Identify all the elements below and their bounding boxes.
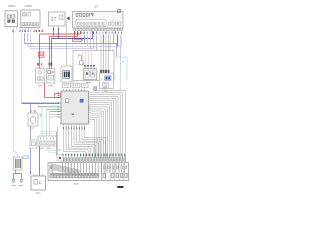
unit 30 blue glyph — [105, 76, 111, 81]
red component outline — [55, 93, 61, 97]
unit B body — [21, 10, 40, 28]
arrow marker — [66, 17, 69, 21]
wire gray drop to connector — [65, 21, 67, 67]
strip diagonal harness — [51, 164, 80, 170]
strip stubs — [62, 158, 64, 161]
pink feed wires — [85, 49, 87, 66]
svg-text:12: 12 — [103, 86, 107, 90]
wire red harness h3 — [58, 28, 60, 39]
wire red harness h3 — [53, 28, 55, 37]
ECU right harness fan — [91, 92, 122, 157]
unit 10 right cells — [109, 22, 111, 25]
unit BSI pin labels — [13, 30, 14, 33]
teal wires into ECU — [38, 106, 62, 108]
unit 30 label — [104, 90, 109, 91]
ECU bottom pins — [62, 124, 64, 126]
strip right columns — [105, 163, 107, 180]
strip label — [74, 183, 79, 184]
wire navy branch top — [51, 31, 92, 39]
fuse box body — [73, 51, 114, 81]
svg-text:27: 27 — [51, 17, 57, 23]
block labels — [40, 148, 44, 149]
teal verticals to block — [41, 107, 43, 136]
small box at strip left — [57, 155, 63, 161]
pump pins — [30, 110, 32, 113]
ECU bottom harness fan — [63, 126, 106, 157]
connector III box — [61, 66, 72, 82]
strip lower squares — [51, 173, 53, 178]
connector above ECU — [63, 83, 71, 87]
strip right mid marks — [103, 166, 105, 169]
unit B bottom cells — [22, 23, 24, 26]
wire blue bus upper — [25, 33, 117, 57]
unit 10 body — [73, 12, 124, 29]
svg-text:C: C — [39, 180, 42, 185]
wire blue drop a — [84, 35, 86, 44]
wire blue drop to bottom unit — [30, 103, 32, 174]
blue glyph left of unit30 — [94, 87, 97, 91]
ECU bottom pin labels — [63, 127, 64, 129]
unit 10 top glyph — [117, 9, 120, 12]
relay L1 labels above — [37, 63, 39, 66]
wire gray drop d — [96, 35, 98, 51]
wire navy drop bottom — [39, 146, 41, 176]
unit 30 body — [100, 73, 114, 89]
unit BSI connector pins — [6, 27, 8, 29]
wire red loop — [73, 38, 83, 41]
teal label tick — [122, 61, 124, 62]
relay 27 pins — [53, 26, 55, 28]
ECU inner mark — [72, 113, 74, 115]
relay block A pins — [84, 66, 86, 69]
wire red stub3 — [75, 31, 83, 39]
pump body — [28, 113, 38, 126]
unit 10 connector stubs — [74, 28, 76, 30]
unit 10 stub labels — [74, 32, 75, 34]
strip blue cells — [50, 165, 53, 170]
wire teal branch lower — [118, 67, 121, 90]
small box left of block — [30, 140, 37, 148]
connector block lower-left — [38, 136, 57, 146]
wire blue drop i — [120, 35, 122, 47]
relay L1 body — [36, 69, 45, 84]
wire blue drop b — [87, 35, 89, 47]
wire lavender lower bus — [31, 33, 95, 49]
direct drop left — [57, 126, 59, 155]
unit A body — [5, 11, 18, 27]
sensor label — [23, 156, 28, 159]
strip part number — [117, 186, 123, 188]
ECU left pins — [59, 92, 61, 94]
wire navy stub above L2 — [50, 39, 52, 69]
wire pink vertical — [14, 33, 18, 157]
teal leads to strip box — [46, 146, 57, 151]
unit B inner mark — [23, 13, 27, 16]
red connector marks mid-left — [39, 52, 45, 54]
green tick — [40, 114, 42, 118]
wire lavender bus — [28, 33, 121, 67]
unit 30 yellow tick — [101, 78, 102, 80]
ECU top pins — [63, 89, 65, 91]
connector above ECU 2 — [72, 83, 80, 87]
unit A inner cells — [7, 15, 10, 18]
strip stub labels — [62, 154, 63, 157]
wire blue drop g — [113, 35, 115, 44]
bottom unit label — [36, 192, 41, 193]
wire navy drop h — [117, 35, 119, 47]
gray wires into ECU low — [50, 114, 61, 116]
ECU body — [61, 91, 89, 124]
teal drop left — [56, 132, 58, 156]
unit 10 inner module — [76, 20, 106, 27]
sensor lead labels — [12, 185, 16, 186]
unit 10 internal glyphs — [76, 13, 78, 16]
wire teal branch right — [117, 57, 128, 80]
bottom unit pins — [33, 174, 35, 176]
unit B label above — [25, 5, 33, 7]
pump label — [30, 127, 35, 128]
relay block A label — [86, 82, 92, 83]
wire navy drop e — [103, 35, 105, 44]
unit 30 inner cell — [103, 82, 109, 87]
ECU inner blue square — [80, 99, 84, 103]
wire pale vertical x21 — [21, 33, 23, 103]
wire blue drop c — [90, 35, 92, 49]
teal valve symbol — [78, 55, 81, 61]
strip interior wires — [62, 163, 64, 173]
wire red harness h1 — [40, 31, 81, 69]
relay labels below — [38, 85, 42, 86]
wire gray drop f — [109, 35, 111, 51]
svg-text:10: 10 — [94, 4, 99, 9]
sensor body — [14, 157, 23, 170]
bottom unit body — [31, 176, 46, 190]
block side label — [58, 149, 62, 150]
relay block A body — [83, 69, 96, 80]
unit 10 module cells — [78, 22, 80, 25]
teal bus lower — [40, 131, 58, 133]
relay 27 body — [49, 12, 66, 26]
III box label — [64, 84, 69, 85]
pump pin labels — [30, 110, 31, 112]
gray verticals relays to ECU — [73, 80, 75, 83]
unit A label above — [8, 5, 16, 7]
wire lav drop c2 — [93, 35, 95, 49]
terminal strip body — [48, 163, 129, 181]
wire red harness h2 — [49, 31, 77, 69]
ECU inner square outline — [65, 99, 69, 103]
strip divider — [101, 163, 103, 181]
ECU right pins — [89, 91, 91, 93]
sensor teal leads — [15, 170, 17, 174]
unit 30 feed wires — [100, 35, 102, 71]
unit 30 connector pins — [100, 70, 102, 73]
top harness line — [95, 91, 125, 158]
wire navy bus left — [22, 102, 62, 104]
relay L2 body — [46, 69, 55, 84]
relay L2 labels above — [49, 63, 51, 66]
strip right lower squares — [103, 173, 105, 177]
connector above ECU 3 — [82, 83, 89, 87]
wire red drop from relays — [44, 83, 61, 97]
